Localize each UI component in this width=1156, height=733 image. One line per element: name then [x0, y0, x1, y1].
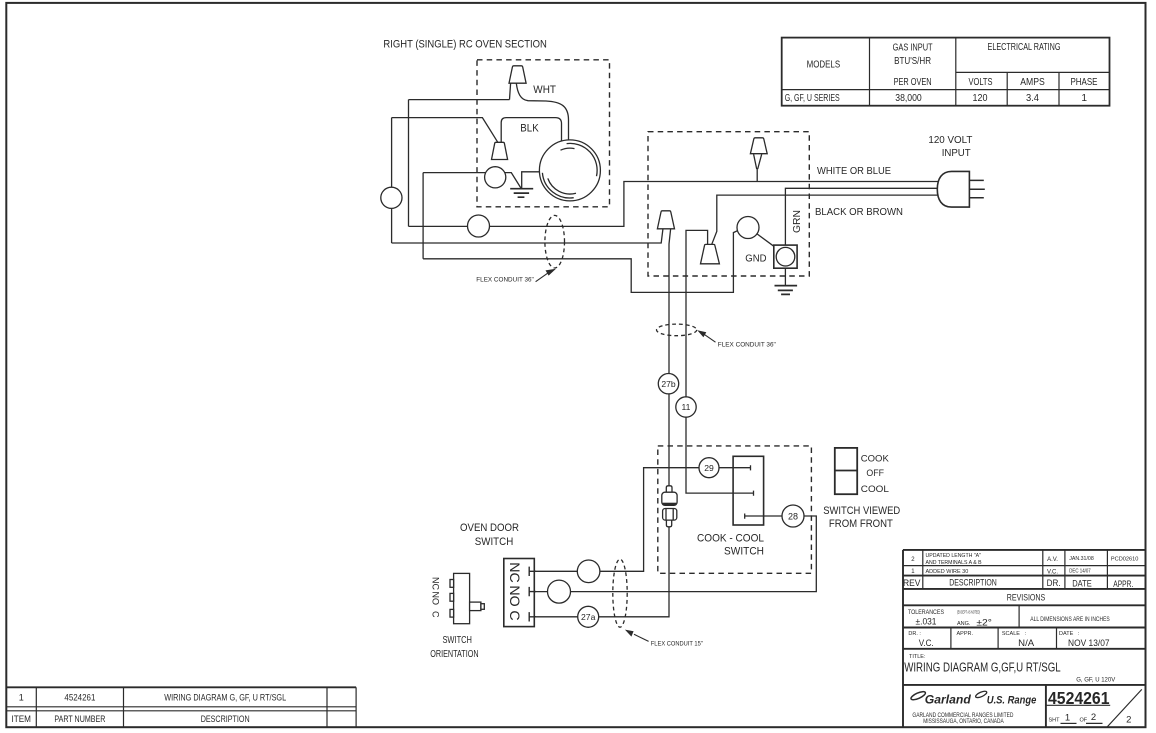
wire: oven door C line through splice: [529, 527, 669, 617]
svg-text:27b: 27b: [661, 379, 676, 389]
wire: WHT curve from wire nut to blower motor: [516, 83, 568, 140]
svg-text:WHT: WHT: [533, 84, 556, 96]
oven door switch S2 body: [504, 559, 536, 627]
junction circle J3: [737, 217, 759, 239]
title cell: [904, 654, 1115, 683]
svg-text:UPDATED LENGTH "A": UPDATED LENGTH "A": [926, 553, 982, 559]
revision header row: [903, 578, 1133, 590]
120V input dashed enclosure: [648, 132, 809, 276]
svg-text:29: 29: [704, 463, 714, 473]
svg-text:ALL DIMENSIONS ARE IN INCHES: ALL DIMENSIONS ARE IN INCHES: [1030, 617, 1110, 623]
svg-text:COOL: COOL: [861, 484, 889, 495]
svg-text:G, GF, U 120V: G, GF, U 120V: [1076, 677, 1115, 683]
svg-text:JAN.31/08: JAN.31/08: [1069, 556, 1094, 562]
wire: oven harness top (to 120V white): [409, 182, 945, 227]
terminal circle 11: [676, 397, 696, 417]
terminal circle 27a: [578, 606, 599, 627]
junction circle J1 far left: [381, 187, 402, 208]
svg-text:2: 2: [1126, 714, 1131, 725]
svg-text:RIGHT (SINGLE) RC OVEN SECTION: RIGHT (SINGLE) RC OVEN SECTION: [383, 38, 547, 50]
svg-text:SWITCH: SWITCH: [475, 536, 514, 548]
wire: oven harness bottom (to junction J3): [423, 230, 738, 292]
svg-text:ORIENTATION: ORIENTATION: [430, 649, 478, 660]
svg-text:28: 28: [788, 511, 798, 521]
cook-cool switch S1 body: [733, 456, 764, 525]
svg-text:NO: NO: [430, 592, 440, 606]
svg-text:APPR.: APPR.: [1113, 579, 1133, 590]
svg-text:WHITE OR BLUE: WHITE OR BLUE: [817, 166, 891, 177]
svg-text:TOLERANCES: TOLERANCES: [908, 609, 944, 616]
wire: J3 to ground lug: [757, 234, 774, 246]
svg-text:ANG.: ANG.: [957, 621, 971, 627]
svg-text:DESCRIPTION: DESCRIPTION: [201, 714, 250, 724]
wire nut WN5: [701, 244, 720, 263]
svg-text:COOK - COOL: COOK - COOL: [697, 533, 764, 545]
svg-text:BTU'S/HR: BTU'S/HR: [894, 56, 931, 67]
leader: FLEX CONDUIT 15": [625, 630, 703, 648]
svg-text:2: 2: [1091, 712, 1096, 723]
wire: cook-cool pin 3 to node 28 and oven door NO: [529, 514, 816, 592]
svg-text:APPR.: APPR.: [957, 631, 974, 637]
cook-cool dashed enclosure: [658, 446, 812, 573]
svg-text:FLEX CONDUIT 36": FLEX CONDUIT 36": [476, 276, 534, 283]
wire nut WN2 (BLK splice): [492, 142, 508, 159]
sign-off cells: [908, 631, 1109, 649]
svg-text:NO: NO: [506, 585, 522, 606]
svg-text:MODELS: MODELS: [807, 60, 841, 71]
wire: far-left vertical through junction circle: [391, 118, 393, 243]
Garland / U.S. Range logos: [910, 690, 1037, 725]
spec table: [782, 38, 1110, 106]
svg-text:BLK: BLK: [520, 122, 539, 134]
terminal circle 27b: [658, 374, 678, 394]
svg-text:FLEX CONDUIT 36": FLEX CONDUIT 36": [718, 341, 776, 348]
blower motor M1: [539, 140, 600, 201]
svg-text:±2°: ±2°: [976, 617, 992, 628]
junction circle on NO line: [548, 580, 571, 603]
svg-text:1: 1: [911, 569, 915, 575]
svg-text:120: 120: [973, 93, 988, 104]
svg-text:COOK: COOK: [861, 454, 890, 465]
wire: green lead from plug to ground lug: [785, 188, 944, 245]
svg-text:1: 1: [1081, 93, 1087, 104]
svg-text:SWITCH VIEWED: SWITCH VIEWED: [823, 505, 900, 517]
leader: FLEX CONDUIT 36" (middle): [697, 330, 776, 348]
svg-text:1: 1: [1065, 713, 1070, 724]
in-line splice connector: [662, 486, 677, 527]
svg-text:NC: NC: [506, 562, 522, 583]
svg-text:4524261: 4524261: [64, 692, 95, 702]
svg-text:PER OVEN: PER OVEN: [894, 77, 932, 88]
svg-text:38,000: 38,000: [895, 93, 922, 104]
svg-text:2: 2: [911, 557, 915, 563]
svg-text:C: C: [430, 611, 440, 618]
svg-text:ELECTRICAL RATING: ELECTRICAL RATING: [988, 42, 1061, 53]
wire nut WN1 (WHT splice): [509, 66, 526, 83]
svg-text:DR. :: DR. :: [908, 631, 921, 637]
wire: branch from WN5 down to cook-cool switch: [686, 230, 733, 493]
svg-text:A.V.: A.V.: [1047, 557, 1058, 563]
svg-text:U.S. Range: U.S. Range: [987, 694, 1037, 706]
revision row 2: [911, 553, 1138, 566]
svg-text:ADDED WIRE 30: ADDED WIRE 30: [926, 569, 969, 575]
svg-text:PHASE: PHASE: [1071, 77, 1098, 88]
svg-text:OFF: OFF: [866, 468, 884, 479]
ground lug GND: [774, 245, 797, 268]
svg-text:±.031: ±.031: [916, 617, 937, 628]
wire: cook-cool pin 2 stub: [733, 491, 753, 496]
tolerances cell: [908, 609, 1110, 628]
svg-text:VOLTS: VOLTS: [969, 77, 993, 88]
svg-text:WIRING DIAGRAM G,GF,U RT/SGL: WIRING DIAGRAM G,GF,U RT/SGL: [904, 660, 1060, 675]
svg-text:DESCRIPTION: DESCRIPTION: [949, 578, 997, 589]
leader: FLEX CONDUIT 36" (left): [476, 269, 556, 284]
svg-text:MISSISSAUGA, ONTARIO, CANADA: MISSISSAUGA, ONTARIO, CANADA: [923, 719, 1004, 725]
wire: oven harness middle (to splice nut): [392, 229, 671, 485]
rocker switch front view: [835, 448, 890, 495]
revision row 1: [911, 569, 1091, 576]
svg-text:SWITCH: SWITCH: [724, 545, 764, 557]
svg-text:OF: OF: [1080, 718, 1088, 724]
wire: vertical drop left of oven section: [408, 100, 410, 227]
svg-text:WIRING DIAGRAM G, GF, U RT/SGL: WIRING DIAGRAM G, GF, U RT/SGL: [164, 692, 286, 702]
wire nut WN4 (oven-feed splice): [657, 211, 674, 229]
junction circle J2: [468, 215, 490, 237]
svg-text:GND: GND: [745, 253, 766, 264]
parts list table: [6, 687, 356, 727]
svg-text:PCD02610: PCD02610: [1111, 557, 1139, 563]
svg-text:C: C: [506, 610, 522, 620]
svg-text:GAS INPUT: GAS INPUT: [893, 43, 933, 54]
svg-text:AMPS: AMPS: [1020, 77, 1045, 88]
svg-text:Garland: Garland: [925, 692, 972, 706]
terminal circle 29: [699, 458, 719, 478]
ground G1 in oven section: [510, 189, 533, 198]
wire: WHT feed horizontal from node to wire nut: [409, 83, 511, 99]
svg-text:AND TERMINALS A & B: AND TERMINALS A & B: [926, 560, 983, 566]
svg-text:NOV 13/07: NOV 13/07: [1068, 638, 1110, 649]
svg-text:BLACK OR BROWN: BLACK OR BROWN: [815, 207, 903, 218]
svg-text:REVISIONS: REVISIONS: [1007, 592, 1046, 603]
svg-text:SHT: SHT: [1049, 718, 1061, 724]
svg-text:OVEN DOOR: OVEN DOOR: [460, 522, 519, 534]
svg-text:PART NUMBER: PART NUMBER: [54, 714, 105, 724]
svg-text:11: 11: [682, 402, 691, 412]
wire: white pigtail V into nut WN3: [754, 154, 762, 181]
wire: BLK horizontal from left vertical: [392, 118, 498, 143]
svg-text:FROM FRONT: FROM FRONT: [829, 518, 893, 530]
svg-text:NC: NC: [430, 577, 440, 590]
svg-text:DATE: DATE: [1072, 578, 1092, 589]
svg-text:SWITCH: SWITCH: [442, 635, 472, 646]
svg-text:1: 1: [19, 692, 24, 702]
switch orientation symbol: [430, 573, 484, 623]
wire: BLK loop from wire nut to blower motor: [501, 118, 561, 143]
svg-text:GRN: GRN: [792, 210, 803, 233]
svg-text:DR.: DR.: [1047, 578, 1061, 589]
wire: vertical from ground node down: [422, 173, 424, 259]
svg-text:SCALE :: SCALE :: [1002, 631, 1027, 637]
svg-text:DEC 14/07: DEC 14/07: [1069, 569, 1091, 575]
terminal circle 28: [782, 505, 804, 527]
svg-text:(EXCEPT AS NOTED): (EXCEPT AS NOTED): [957, 609, 980, 614]
ground G2 below lug: [784, 268, 786, 285]
junction circle on NC line: [577, 560, 600, 583]
svg-text:DATE :: DATE :: [1059, 631, 1080, 637]
svg-text:27a: 27a: [581, 612, 596, 622]
flex conduit sleeve E1: [545, 215, 565, 268]
oven section dashed enclosure: [477, 60, 610, 207]
svg-text:4524261: 4524261: [1048, 688, 1110, 708]
flex conduit sleeve E3: [613, 559, 627, 627]
wire nut WN3 (white splice): [750, 138, 767, 154]
svg-text:REV: REV: [903, 578, 921, 589]
svg-text:G, GF, U SERIES: G, GF, U SERIES: [785, 93, 840, 104]
wire: black lead from plug to wire nut WN5: [712, 195, 944, 244]
flex conduit sleeve E2: [657, 324, 697, 336]
svg-text:N/A: N/A: [1018, 638, 1035, 649]
wire: motor ground link: [423, 172, 539, 188]
junction circle on ground wire: [485, 167, 506, 188]
title block: [903, 550, 1146, 727]
svg-text:120 VOLT: 120 VOLT: [928, 135, 972, 146]
svg-text:3.4: 3.4: [1026, 93, 1039, 104]
drawing number: [1048, 688, 1131, 725]
svg-text:V.C.: V.C.: [1047, 569, 1058, 575]
svg-text:FLEX CONDUIT 15": FLEX CONDUIT 15": [651, 641, 703, 648]
svg-text:ITEM: ITEM: [11, 714, 31, 724]
wire: node 29 line (NC to cook-cool pin 1): [529, 465, 750, 571]
svg-text:V.C.: V.C.: [919, 638, 934, 649]
power plug P1: [937, 171, 985, 207]
svg-text:INPUT: INPUT: [942, 148, 971, 159]
